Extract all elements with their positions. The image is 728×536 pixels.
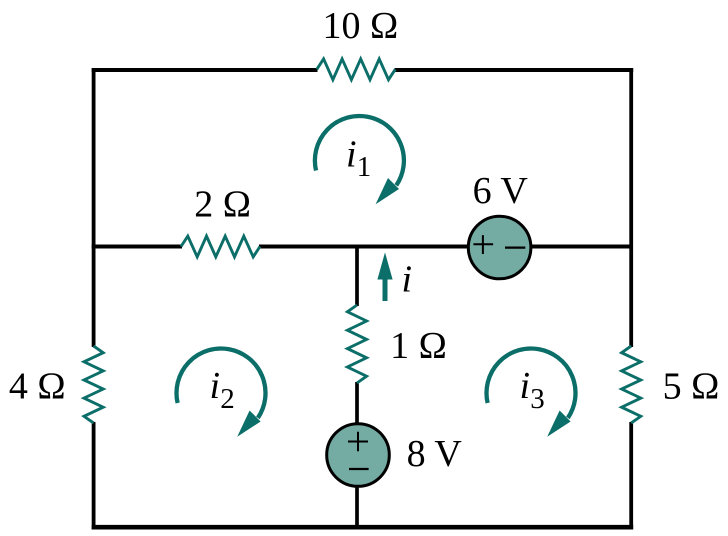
wire middle horizontal right of 2 ohm (259, 245, 633, 249)
resistor 1 ohm (347, 305, 366, 383)
wire top-right segment (395, 68, 634, 72)
6V plus sign (473, 235, 493, 254)
wire right upper segment (629, 68, 633, 347)
mesh current i3 arrow (486, 348, 575, 436)
svg-text:1: 1 (357, 151, 372, 183)
wire bottom (92, 525, 634, 530)
svg-text:i: i (210, 365, 221, 407)
svg-text:i: i (346, 133, 357, 175)
svg-text:10 Ω: 10 Ω (323, 5, 399, 47)
svg-text:2: 2 (220, 383, 235, 415)
mesh current i1 arrow (315, 116, 404, 204)
mesh current i2 arrow (176, 348, 265, 436)
wire right lower segment (629, 422, 633, 530)
voltage source 6V (468, 216, 531, 279)
wire left upper segment (92, 68, 96, 347)
svg-text:i: i (520, 365, 531, 407)
svg-text:5 Ω: 5 Ω (663, 365, 720, 407)
svg-text:1 Ω: 1 Ω (390, 325, 447, 367)
svg-text:4 Ω: 4 Ω (9, 365, 66, 407)
svg-text:3: 3 (530, 383, 545, 415)
wire middle branch lower (355, 382, 359, 530)
resistor 5 ohm (622, 346, 641, 423)
svg-text:6 V: 6 V (473, 170, 529, 212)
6V minus sign (505, 247, 525, 249)
svg-text:i: i (402, 259, 413, 301)
resistor 2 ohm (181, 236, 260, 257)
wire middle horizontal left of 2 ohm (92, 245, 182, 249)
wire left lower segment (92, 422, 96, 530)
8V minus sign (349, 468, 369, 470)
resistor 4 ohm (84, 346, 103, 423)
8V plus sign (348, 432, 368, 452)
svg-text:2 Ω: 2 Ω (194, 183, 251, 225)
wire middle branch upper (355, 245, 359, 306)
resistor 10 ohm (317, 59, 396, 80)
wire top-left segment (92, 68, 318, 72)
branch current arrow i (377, 252, 392, 301)
svg-text:8 V: 8 V (407, 433, 463, 475)
voltage source 8V (327, 424, 390, 487)
